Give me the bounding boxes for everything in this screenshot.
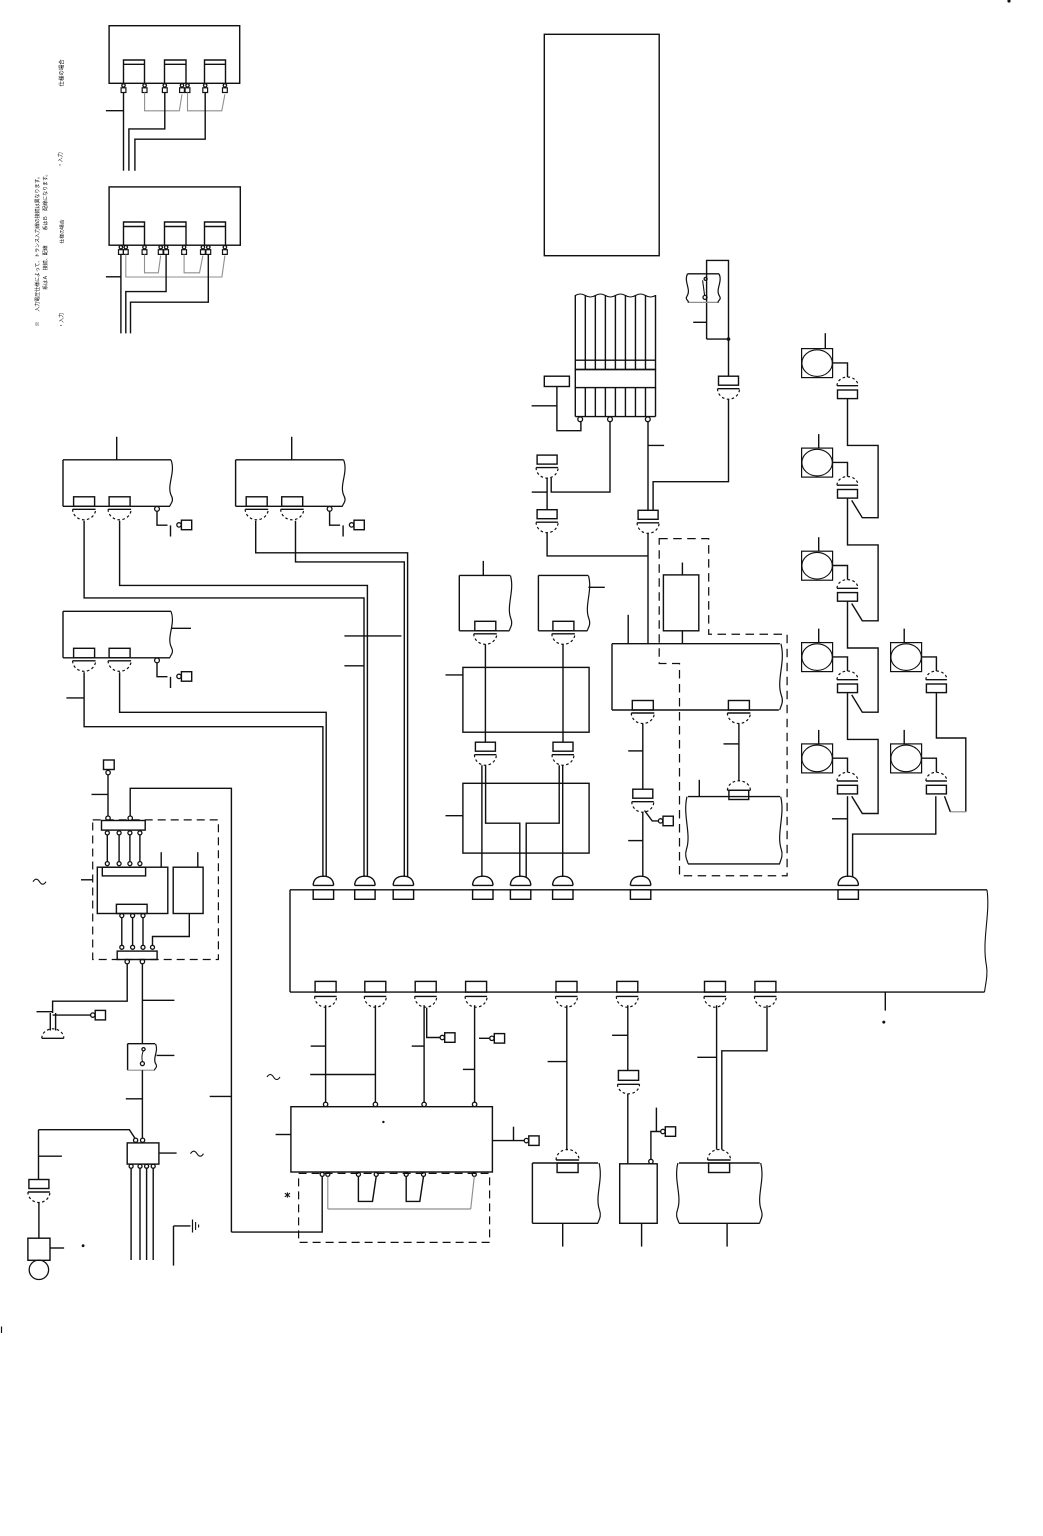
transformer T1 body: [127, 1143, 159, 1164]
PCB top connector T4: [473, 876, 493, 899]
filter internal wires: [107, 835, 140, 862]
wire input 1 from box B pin1: [120, 254, 122, 333]
motor M6 body: [891, 643, 922, 672]
power plug cap: [29, 1260, 48, 1279]
wire CN-B to node under CN-C: [547, 532, 648, 556]
T1 secondary wires: [131, 1168, 153, 1260]
capacitor return wire: [153, 914, 190, 946]
PCB bottom connector B1: [315, 981, 337, 1007]
motor M7 tail wire: [853, 796, 936, 877]
S1 bottom connector: [474, 621, 497, 644]
PCB top connector T2: [355, 876, 375, 899]
D1 bottom stub: [726, 1223, 728, 1246]
strip input pin 2: [128, 816, 132, 820]
tick on B1 wire: [311, 1045, 326, 1047]
PCB bottom connector B8: [754, 981, 776, 1007]
tick stub left of thermostat: [693, 321, 706, 323]
motor M4 top lead: [818, 629, 820, 643]
tap coil 2 of box B: [165, 222, 187, 245]
jumper wire (gray) box B pin6-pin7: [184, 254, 203, 272]
wire down to plug connector: [38, 1130, 40, 1180]
sensor box S1 body: [459, 575, 511, 630]
solenoid unit U2 connector b: [281, 497, 304, 520]
solenoid unit U3 body: [63, 611, 172, 658]
tick on B6 wire: [612, 1034, 628, 1036]
PU1 left stub: [446, 674, 463, 676]
solenoid unit U2 body: [236, 460, 345, 507]
wire input 3 from box B pin8: [131, 254, 209, 333]
wire B7 to drum unit: [716, 1005, 718, 1149]
PU2 internal wire 2: [486, 783, 520, 877]
wire CN-A to CN-B: [546, 478, 548, 510]
choke coil bottom notch: [116, 904, 147, 913]
motor M4 body: [802, 643, 833, 672]
choke coil upper pins: [105, 862, 142, 866]
PCB top connector T8: [838, 876, 858, 899]
connector CN-B: [536, 510, 558, 533]
jumper wire (gray) box A pin2-pin4: [145, 93, 182, 111]
motor M4 connector: [837, 671, 858, 693]
inline connector CN-F: [552, 742, 574, 765]
wire tag to strip pin1: [107, 775, 109, 816]
harness U3-b to PCB: [120, 672, 327, 877]
T1 secondary pins: [129, 1164, 155, 1168]
tick on drum pair: [697, 1056, 716, 1058]
wire input 2 from box A pin3: [129, 93, 165, 171]
gray return wire: [328, 1177, 475, 1210]
filter input terminal strip: [102, 821, 146, 831]
B3 tag branch: [427, 1008, 440, 1038]
chassis terminal twin leads: [50, 1013, 55, 1031]
V1 bottom stub: [562, 1223, 564, 1246]
chain wire M3 to M4: [848, 601, 879, 712]
label: variant B case: [59, 219, 66, 243]
small relay box K1: [544, 376, 569, 386]
output strip upper pins: [120, 945, 155, 949]
box A terminal pin 1: [121, 84, 126, 93]
solenoid unit U3 earth pin: [155, 658, 160, 663]
box B terminal pin 8: [206, 246, 211, 255]
H1 top stub: [698, 780, 700, 797]
RY1 top stub: [627, 615, 629, 644]
heater unit H1 body: [686, 797, 782, 864]
resistor R1 body: [663, 575, 698, 631]
motor M7 connector: [926, 772, 947, 794]
period dot near plug: [82, 1244, 85, 1247]
RY1 bottom connector 2: [727, 701, 750, 724]
thermostat TH1 contacts: [703, 277, 708, 299]
box A terminal pin 7: [223, 84, 228, 93]
jumper wire (gray) box A pin5-pin7: [188, 93, 225, 111]
thermostat bypass loop wire: [707, 260, 729, 339]
inverter box PU2: [463, 783, 589, 853]
wire CN-G to PCB: [642, 812, 644, 877]
wire input 3 from box A pin6: [135, 93, 205, 171]
wire pin P2 to connector CN-A: [551, 422, 610, 492]
svg-text:仕様の場合: 仕様の場合: [59, 219, 66, 243]
B4 tag branch: [479, 1037, 489, 1039]
wire CN-D down to CN-C: [653, 399, 728, 511]
earth tag on B3: [440, 1033, 455, 1043]
PCB bottom connector B5: [556, 981, 578, 1007]
motor M3 side lead: [833, 566, 848, 580]
box A terminal pin 3: [162, 84, 167, 93]
motor M5 side lead: [833, 758, 848, 772]
display dashed enclosure: [299, 1173, 490, 1242]
plain lead from PCB bottom: [884, 992, 886, 1011]
solenoid unit U2 earth lead: [330, 511, 344, 536]
wire CN-C to relay box R4: [647, 533, 649, 644]
wire B1 to display board: [325, 1005, 327, 1102]
tick left of tag wire: [92, 793, 109, 795]
motor M5 body: [802, 744, 833, 773]
tick left on CN-G wire: [628, 750, 643, 752]
solenoid unit U1 earth tag: [177, 520, 192, 530]
tick stub right of P3 wire: [648, 444, 664, 446]
transformer T1 primary pins: [134, 1138, 145, 1142]
tick left of lamp wire: [37, 1011, 53, 1013]
PU2 internal wire 3: [526, 783, 559, 877]
branch to earth tag: [53, 1014, 91, 1016]
strip input pin 1: [106, 816, 110, 820]
dot below plain lead: [882, 1021, 885, 1024]
motor M3 body: [802, 551, 833, 580]
earth tag by CN-G: [658, 816, 673, 826]
P1 corner pin: [649, 1159, 653, 1163]
block output pin P3: [645, 417, 650, 422]
power unit box PU1: [463, 667, 589, 732]
capacitor top lead: [197, 852, 199, 867]
tap coil 1 of box A: [124, 60, 145, 83]
valve unit V1 body: [532, 1163, 600, 1223]
motor M2 body: [802, 448, 833, 477]
PCB top connector T1: [313, 876, 333, 899]
PCB bottom connector B3: [415, 981, 437, 1007]
tick stub on CN-A lead: [532, 491, 547, 493]
earth tag on display board: [524, 1136, 539, 1146]
tick across U1 harness pair: [344, 635, 401, 637]
main control PCB body: [290, 890, 988, 992]
line wire strip pin2 to main drop: [130, 788, 231, 1232]
tick left of T1 wire: [126, 1098, 143, 1100]
chassis terminal dome: [42, 1029, 64, 1039]
main transformer outline (empty): [544, 34, 659, 255]
T1 right stub: [159, 1152, 177, 1154]
tilde AC mark by T1: [191, 1151, 204, 1156]
connector block lower strip pins: [575, 388, 655, 417]
capacitor block: [173, 867, 203, 913]
plug right stub: [50, 1247, 64, 1249]
choke coil top notch: [102, 867, 145, 876]
wire RY1 to connector CN-G: [642, 724, 644, 790]
motor M5 connector: [837, 772, 858, 794]
wire B4 to display board: [474, 1005, 476, 1102]
display board input pins: [323, 1102, 476, 1106]
R1 bottom lead: [681, 631, 683, 644]
harness U1-b to PCB: [120, 521, 368, 877]
note text line 1: [34, 174, 41, 326]
solenoid unit U3 right lead: [171, 627, 191, 629]
drum unit D1 body: [677, 1163, 762, 1223]
connector block housing gap: [575, 370, 655, 388]
choke coil body: [97, 867, 168, 913]
wire B5 to valve unit: [566, 1005, 568, 1150]
harness U2-b to PCB: [296, 521, 405, 877]
earth tag on B4: [490, 1034, 505, 1044]
block output pin P1: [578, 417, 583, 422]
box A terminal pin 4: [180, 84, 185, 93]
svg-text:系はＡ 接続、配線 系はＢ 配線になります。: 系はＡ 接続、配線 系はＢ 配線になります。: [42, 172, 49, 290]
box B terminal pin 5: [164, 246, 169, 255]
connector CN-A: [536, 455, 558, 478]
solenoid unit U3 earth tag: [177, 672, 192, 682]
box B terminal pin 3: [142, 246, 147, 255]
svg-text:・入力: ・入力: [57, 152, 64, 167]
tick on B3 wire: [412, 1045, 424, 1047]
RY1 bottom connector 1: [631, 701, 654, 724]
wire input 2 from box B pin5: [126, 254, 166, 333]
motor M6 top lead: [903, 629, 905, 643]
motor M5 top lead: [818, 730, 820, 744]
relay unit RY1 body: [612, 644, 782, 710]
wire S2 to power unit box: [562, 644, 564, 667]
connector block upper strip: [575, 360, 655, 369]
wire stub left of box A input: [106, 110, 124, 112]
choke lower pins: [120, 914, 145, 918]
supply tag square above filter: [104, 760, 115, 775]
chain wire M1 to M2: [848, 399, 879, 518]
box B terminal pin 7: [201, 246, 206, 255]
chain wire M2 to M3: [848, 498, 879, 621]
solenoid unit U3 connector a: [73, 648, 96, 671]
tap coil 1 of box B: [124, 222, 145, 245]
PCB bottom connector B6: [616, 981, 638, 1007]
wire output1 to chassis terminal: [53, 964, 128, 1013]
connector CN-G: [632, 789, 654, 812]
tick stub left of K1 wire: [532, 405, 557, 407]
inline connector CN-E: [474, 742, 496, 765]
wire B2 to display board: [374, 1005, 376, 1102]
harness U3-a to PCB: [84, 672, 323, 877]
stub left of U3-a lead: [66, 697, 84, 699]
display bottom pins: [320, 1172, 476, 1176]
tick on U1 harness left wire: [344, 665, 364, 667]
valve unit V1 top connector: [556, 1150, 579, 1173]
strip output pin 1: [125, 959, 129, 963]
motor M3 top lead: [818, 537, 820, 551]
strip lower pins: [105, 831, 142, 835]
tick on B5 wire: [548, 1061, 567, 1063]
wire loop to connector CN-D: [728, 339, 730, 376]
tick left on heater wire: [724, 743, 739, 745]
jumper wire (gray) box B pin3-pin4: [145, 254, 161, 272]
pump unit P1 body: [620, 1164, 658, 1224]
CN-E twin leads: [482, 765, 486, 783]
tiny note mark: [285, 1192, 290, 1197]
noise filter dashed enclosure: [93, 820, 219, 960]
connector CN-C: [637, 510, 659, 533]
box B terminal pin 9: [223, 246, 228, 255]
wire input 1 from box A pin1: [123, 93, 125, 171]
power plug body: [28, 1238, 50, 1260]
solenoid unit U1 earth lead: [157, 511, 171, 536]
link tick B1-B2: [310, 1074, 375, 1076]
motor M1 connector: [837, 377, 858, 399]
dot on display board: [382, 1121, 384, 1123]
label: input marker 2: [58, 313, 65, 328]
PCB bottom connector B4: [465, 981, 487, 1007]
box B terminal pin 1: [119, 246, 124, 255]
wire B6 to pump unit: [627, 1005, 629, 1164]
motor M6 connector: [926, 671, 947, 693]
door switch SW1 body: [128, 1044, 157, 1071]
PU2 left stub: [446, 815, 463, 817]
tiny page mark left edge: [1, 1327, 3, 1334]
solenoid unit U3 earth lead: [157, 663, 171, 688]
P1 bottom stub: [641, 1223, 643, 1246]
live wire to T1 left pin: [39, 1130, 135, 1138]
motor M4 side lead: [833, 657, 848, 671]
key backlight loop 1: [358, 1177, 376, 1202]
choke top lead: [160, 852, 162, 867]
display board left stub: [276, 1134, 291, 1136]
note text line 2: [42, 172, 49, 290]
PCB top connector T3: [393, 876, 413, 899]
solenoid unit U1 top lead: [116, 437, 118, 460]
PCB top connector T7: [630, 876, 650, 899]
ribbon harness torn top edge: [575, 294, 655, 297]
tap coil 3 of box A: [205, 60, 226, 83]
box A terminal pin 5: [185, 84, 190, 93]
tick left on main drop wire: [210, 1095, 232, 1097]
inline connector CN-H on B6: [618, 1071, 640, 1094]
filter output terminal strip: [117, 951, 157, 959]
motor M2 top lead: [818, 434, 820, 448]
PCB bottom connector B7: [704, 981, 726, 1007]
ribbon harness wires (9): [575, 295, 655, 370]
motor M5 tail wire: [847, 796, 849, 877]
wire stub left of box B input: [106, 276, 121, 278]
motor M7 body: [891, 744, 922, 773]
PU2 internal wire 1: [481, 783, 483, 877]
motor M1 side lead: [833, 363, 848, 377]
PU2 internal wire 4: [562, 783, 564, 877]
wire B3 to display board: [423, 1005, 425, 1102]
wire pin P3 to connector CN-C: [647, 422, 649, 511]
label: variant A case: [57, 59, 65, 87]
label: input marker 1: [57, 152, 64, 167]
svg-text:・入力: ・入力: [58, 313, 65, 328]
box A terminal pin 2: [142, 84, 147, 93]
SW1 right stub: [157, 1054, 175, 1056]
motor M7 side lead: [922, 758, 937, 772]
box B terminal pin 6: [182, 246, 187, 255]
box B terminal pin 2: [123, 246, 128, 255]
junction node at thermostat loop: [727, 337, 731, 341]
motor M7 top lead: [903, 730, 905, 744]
key backlight loop 2: [406, 1177, 423, 1202]
box A terminal pin 6: [203, 84, 208, 93]
choke to output strip wires: [122, 918, 143, 946]
block output pin P2: [608, 417, 613, 422]
plug connector CN-P: [28, 1180, 50, 1203]
tick across filter left dashed edge: [81, 879, 93, 881]
drum unit D1 top connector: [708, 1150, 731, 1173]
heater unit top connector: [727, 781, 750, 800]
box B terminal pin 4: [158, 246, 163, 255]
wire S2 through PU1: [562, 667, 564, 742]
P1 tag branch: [651, 1108, 661, 1160]
connector CN-D: [718, 376, 740, 399]
display board body: [291, 1107, 493, 1172]
S2 right lead: [588, 586, 604, 588]
harness U2-a to PCB: [256, 521, 408, 877]
motor M2 connector: [837, 477, 858, 499]
tap coil 3 of box B: [205, 222, 226, 245]
earth tag by lamp: [91, 1010, 106, 1020]
wire K1 to pin P1: [557, 387, 581, 431]
sensor box S2 body: [538, 575, 589, 630]
chain wire M4 to M5: [848, 693, 879, 814]
wire B8 join to drum unit: [722, 1005, 767, 1149]
harness U1-a to PCB: [84, 521, 364, 877]
PCB top connector T6: [553, 876, 573, 899]
S1 top lead: [482, 561, 484, 576]
thermostat TH1 body: [686, 274, 720, 303]
jumper wire (gray) box B long link: [126, 254, 225, 277]
strip output pin 2: [140, 959, 144, 963]
svg-text:仕様の場合: 仕様の場合: [57, 59, 65, 87]
tick on B4 wire: [463, 1068, 475, 1070]
solenoid unit U2 earth pin: [327, 507, 332, 512]
solenoid unit U1 body: [63, 460, 172, 507]
CN-G earth branch: [645, 811, 659, 821]
transformer tap box A (variant 1): [109, 26, 240, 84]
CN-F twin leads: [559, 765, 563, 783]
S2 bottom connector: [552, 621, 575, 644]
solenoid unit U1 connector b: [108, 497, 131, 520]
wire display to line filter drop: [231, 1177, 322, 1233]
solenoid unit U2 top lead: [291, 437, 293, 460]
motor M1 body: [802, 349, 833, 378]
tick left on CN-G lower wire: [628, 840, 643, 842]
dot top right page mark: [1007, 0, 1010, 3]
wire RY1 to heater unit: [738, 724, 740, 782]
earth ground symbol: [193, 1220, 199, 1233]
R1 top lead: [681, 563, 683, 575]
motor M2 side lead: [833, 462, 848, 476]
tilde AC mark left of filter: [33, 879, 46, 884]
display board right branch: [492, 1127, 524, 1141]
motor M3 connector: [837, 580, 858, 602]
solenoid unit U2 earth tag: [349, 520, 364, 530]
wire SW1 to transformer T1: [141, 1070, 143, 1138]
solenoid unit U1 connector a: [73, 497, 96, 520]
dashed group outline: [659, 539, 787, 876]
solenoid unit U3 connector b: [108, 648, 131, 671]
tick right of switch wire: [142, 999, 174, 1001]
tap coil 2 of box A: [165, 60, 187, 83]
PCB bottom connector B2: [364, 981, 386, 1007]
wire output2 to door switch: [141, 964, 143, 1044]
earth tag on P1: [661, 1127, 676, 1137]
chain wire M6 to M7: [936, 693, 965, 812]
tick on M5 tail: [832, 818, 848, 820]
door switch SW1 contacts: [140, 1048, 145, 1066]
earth ground lead: [174, 1226, 191, 1266]
tick right on plug wire: [39, 1155, 62, 1157]
tilde AC mark left of PCB: [267, 1075, 280, 1080]
